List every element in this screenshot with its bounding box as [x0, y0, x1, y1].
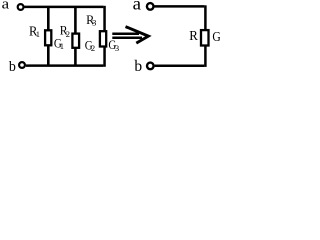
terminal a right circuit [147, 3, 154, 10]
resistor R3 box [100, 31, 106, 46]
wire bottom left circuit [26, 64, 104, 67]
svg-text:b: b [134, 58, 142, 75]
svg-text:a: a [133, 0, 142, 14]
wire branch1 bottom stub [47, 45, 50, 65]
svg-text:R: R [189, 28, 198, 43]
svg-text:2: 2 [91, 43, 95, 53]
wire right circuit elbow down to R box [204, 5, 207, 30]
wire bottom right circuit [155, 65, 205, 68]
wire left circuit right-side elbow down to R3 box [103, 6, 106, 31]
wire below R box to bottom [204, 46, 207, 67]
wire top right circuit [154, 5, 204, 8]
resistor R2 box [72, 34, 79, 48]
wire top left circuit [24, 6, 103, 9]
wire branch3 bottom stub / elbow [103, 47, 106, 67]
svg-text:1: 1 [36, 29, 40, 39]
svg-text:G: G [212, 29, 220, 44]
resistor R1 box [45, 30, 51, 45]
wire branch2 top stub [74, 7, 77, 34]
wire branch1 top stub [47, 7, 50, 30]
svg-text:3: 3 [92, 18, 96, 28]
terminal b right circuit [147, 63, 154, 70]
svg-text:b: b [9, 59, 16, 75]
svg-text:2: 2 [66, 29, 70, 39]
svg-text:3: 3 [115, 43, 119, 53]
equivalence arrow (double-line) [112, 27, 148, 43]
terminal b left circuit [19, 62, 25, 68]
wire branch2 bottom stub [74, 48, 77, 66]
svg-text:a: a [2, 0, 10, 13]
svg-text:1: 1 [60, 41, 64, 51]
terminal a left circuit [18, 4, 24, 10]
resistor R box (equivalent) [201, 30, 209, 45]
